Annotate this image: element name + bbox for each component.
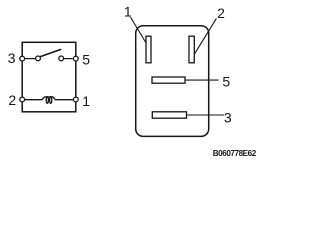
terminal 3 circle [20, 56, 25, 61]
connector body [136, 26, 209, 137]
wire contact to terminal5 [64, 58, 74, 60]
coil loop b [50, 97, 52, 104]
pin 2 slot (vertical) [189, 36, 194, 63]
svg-text:5: 5 [222, 73, 230, 89]
pin 3 slot (horizontal) [152, 112, 186, 118]
leader line pin 1 [130, 17, 146, 43]
wire terminal3 to fixed contact [25, 58, 36, 60]
switch fixed contact right [59, 56, 64, 61]
switch fixed contact left [36, 56, 41, 61]
terminal 5 circle [73, 56, 78, 61]
leader line pin 2 [194, 18, 217, 55]
svg-text:3: 3 [8, 50, 16, 66]
svg-text:B060778E62: B060778E62 [213, 149, 257, 158]
coil L (relay winding) [25, 97, 74, 100]
svg-text:5: 5 [82, 51, 90, 67]
leader line pin 5 [185, 79, 219, 81]
relay body box [22, 42, 76, 112]
svg-text:2: 2 [8, 92, 16, 108]
svg-text:2: 2 [217, 5, 225, 21]
coil loop a [46, 97, 48, 104]
terminal 1 circle [73, 97, 78, 102]
terminal 2 circle [20, 97, 25, 102]
switch blade (open) [40, 49, 61, 57]
pin 5 slot (horizontal) [152, 77, 185, 83]
pin 1 slot (vertical) [146, 36, 151, 63]
svg-text:1: 1 [82, 93, 90, 109]
svg-text:3: 3 [224, 109, 232, 125]
leader line pin 3 [187, 114, 225, 116]
